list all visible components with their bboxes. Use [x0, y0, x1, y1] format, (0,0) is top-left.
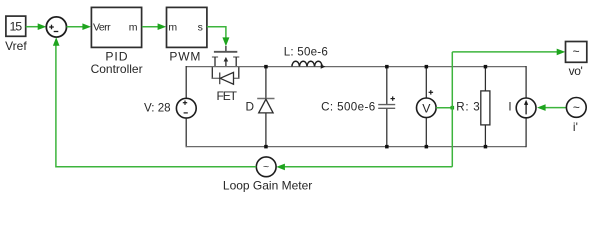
- svg-text:~: ~: [263, 161, 269, 173]
- wire right branch to current source: [525, 66, 527, 98]
- wire feedback vertical net: [451, 52, 453, 167]
- node: diode top junction: [264, 65, 268, 69]
- wire V- lead down to bottom rail: [185, 118, 187, 147]
- svg-text:PWM: PWM: [169, 50, 201, 64]
- wire feedback to vo' scope: [452, 49, 565, 56]
- diode D: [245, 67, 274, 147]
- inductor L: 50e-6: [284, 46, 328, 69]
- svg-text:C: 500e-6: C: 500e-6: [321, 101, 376, 114]
- svg-text:FET: FET: [217, 89, 238, 103]
- svg-text:D: D: [245, 99, 254, 113]
- wire V+ lead down from top rail: [185, 66, 187, 98]
- node: voltmeter top junction: [425, 65, 429, 69]
- wire bottom rail: [186, 146, 526, 148]
- node: capacitor top junction: [385, 65, 389, 69]
- svg-text:Vref: Vref: [5, 39, 27, 53]
- svg-text:s: s: [198, 22, 203, 34]
- svg-text:vo': vo': [569, 64, 583, 78]
- wire top rail (drain node to load): [186, 66, 526, 68]
- node: diode bottom junction: [264, 145, 268, 149]
- block U1 PID Controller: [91, 7, 143, 76]
- loop gain meter: [223, 157, 312, 192]
- wire PID to PWM: [142, 23, 166, 30]
- svg-text:m: m: [129, 22, 138, 34]
- wire PWM s to FET gate: [207, 27, 230, 47]
- transistor FET (MOSFET with body diode): [212, 46, 240, 103]
- svg-text:V: V: [422, 101, 431, 115]
- wire i' source to current source I: [537, 104, 566, 111]
- svg-text:Loop Gain Meter: Loop Gain Meter: [223, 178, 312, 192]
- voltmeter V: [417, 67, 437, 148]
- source block i': [566, 98, 586, 135]
- scope block vo': [566, 42, 587, 79]
- svg-text:Controller: Controller: [91, 62, 143, 76]
- sum junction: [46, 17, 66, 37]
- node: capacitor bottom junction: [385, 145, 389, 149]
- svg-text:Verr: Verr: [93, 22, 111, 34]
- svg-text:i': i': [573, 120, 578, 134]
- node: green feedback junction: [451, 106, 455, 110]
- svg-text:V: 28: V: 28: [144, 102, 171, 115]
- svg-text:R: 3: R: 3: [456, 100, 480, 113]
- node: resistor bottom junction: [484, 145, 488, 149]
- wire loop gain meter to sum (feedback return): [53, 37, 256, 167]
- svg-text:15: 15: [10, 20, 23, 34]
- current source I: [508, 98, 536, 118]
- svg-text:~: ~: [573, 100, 580, 114]
- svg-text:~: ~: [573, 45, 580, 59]
- wire feedback bottom run into loop gain meter: [276, 164, 452, 171]
- svg-text:I: I: [508, 100, 511, 113]
- wire Vref to sum junction: [26, 23, 47, 30]
- block U2 PWM: [167, 7, 207, 63]
- node: voltmeter bottom junction: [425, 145, 429, 149]
- capacitor C: 500e-6: [321, 67, 395, 147]
- constant block Vref (value 15): [5, 16, 27, 53]
- wire voltmeter output to feedback net: [436, 107, 452, 109]
- voltage source V: 28: [144, 98, 196, 118]
- svg-text:m: m: [168, 22, 177, 34]
- svg-text:L: 50e-6: L: 50e-6: [284, 46, 328, 59]
- wire sum to PID: [67, 23, 92, 30]
- node: resistor top junction: [484, 65, 488, 69]
- resistor R: 3: [456, 67, 490, 147]
